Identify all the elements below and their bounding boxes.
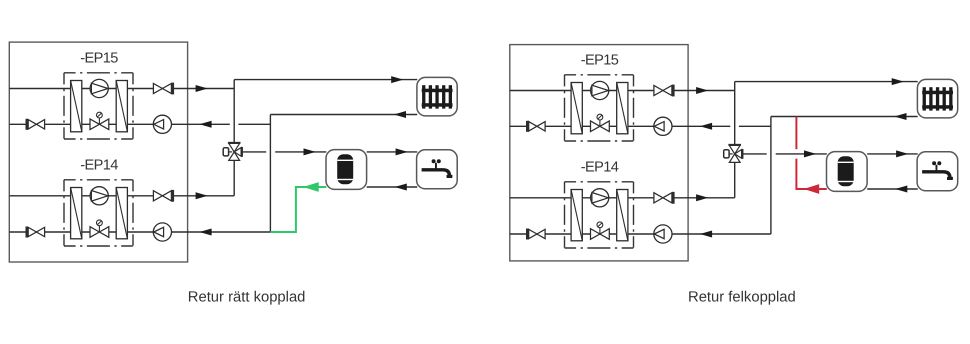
control valve with actuator inside EP15 unit (left) bbox=[90, 112, 109, 129]
arrow L4 return left (right) bbox=[700, 231, 712, 238]
arrow L4 return left (left) bbox=[199, 229, 211, 236]
tap icon box (left) bbox=[417, 150, 458, 189]
wire tap to tank return (right) bbox=[867, 188, 918, 190]
hot water tank icon box (left) bbox=[326, 150, 367, 190]
balancing valve on L1 (left) bbox=[153, 83, 171, 93]
pump inside EP15 unit (right) bbox=[591, 81, 609, 99]
shutoff valve on L4 near box edge (left) bbox=[28, 227, 44, 236]
control valve with actuator inside EP14 unit (left) bbox=[90, 220, 109, 237]
control valve with actuator inside EP15 unit (right) bbox=[591, 114, 610, 131]
arrow tap to tank left (right) bbox=[895, 186, 907, 193]
heat exchanger right plate EP15 (left) bbox=[116, 81, 127, 132]
arrow L2 return left (right) bbox=[700, 123, 712, 130]
svg-text:-EP14: -EP14 bbox=[581, 160, 619, 176]
wire L3 DHW supply from EP14 (left) bbox=[9, 195, 234, 197]
wire radiator supply (left) bbox=[234, 79, 417, 81]
arrow radiator return left (left) bbox=[394, 111, 406, 118]
arrow radiator supply right (right) bbox=[892, 78, 904, 85]
arrow L1 supply right (left) bbox=[196, 85, 208, 92]
arrow radiator supply right (left) bbox=[391, 76, 403, 83]
arrow radiator return left (right) bbox=[894, 113, 906, 120]
radiator icon box (left) bbox=[417, 77, 457, 116]
wire tank to tap supply (right) bbox=[867, 153, 918, 155]
svg-text:Retur rätt kopplad: Retur rätt kopplad bbox=[188, 289, 306, 305]
svg-text:Retur felkopplad: Retur felkopplad bbox=[688, 289, 796, 305]
heat exchanger left plate EP14 (right) bbox=[571, 190, 582, 241]
heat exchanger unit EP15 dashed enclosure (left) bbox=[64, 73, 133, 139]
wire radiator return (left) bbox=[270, 114, 417, 116]
tap icon box (right) bbox=[917, 152, 958, 191]
arrow tank charge right (right) bbox=[804, 150, 816, 157]
circulation pump on L2 (right) bbox=[654, 117, 672, 135]
hot water tank icon box (right) bbox=[827, 152, 868, 192]
wire vertical V1 valve riser (right) bbox=[734, 82, 736, 198]
heat exchanger unit EP14 dashed enclosure (left) bbox=[64, 180, 133, 246]
arrow L3 supply right (right) bbox=[696, 194, 708, 201]
heat exchanger left plate EP15 (right) bbox=[571, 83, 582, 134]
arrow L2 return left (left) bbox=[199, 121, 211, 128]
wire L1 heating supply from EP15 (right) bbox=[510, 90, 735, 92]
arrow tank to tap right (right) bbox=[896, 150, 908, 157]
wire L1 heating supply from EP15 (left) bbox=[9, 88, 234, 90]
circulation pump on L4 (right) bbox=[654, 225, 672, 243]
circulation pump on L2 (left) bbox=[153, 115, 171, 133]
wire tap to tank return (left) bbox=[367, 186, 418, 188]
wire vertical V2 radiator return drop (right) bbox=[770, 117, 772, 235]
three-way diverting valve (right) bbox=[724, 145, 743, 163]
red flow arrow out of tank bbox=[804, 184, 820, 194]
shutoff valve on L2 near box edge (left) bbox=[28, 120, 44, 129]
balancing valve on L1 (right) bbox=[654, 85, 672, 95]
wire L3 DHW supply from EP14 (right) bbox=[510, 197, 735, 199]
balancing valve on L3 (left) bbox=[153, 191, 171, 201]
three-way diverting valve (left) bbox=[223, 143, 242, 161]
arrow tank to tap right (left) bbox=[396, 148, 408, 155]
pump inside EP14 unit (right) bbox=[591, 189, 609, 207]
circulation pump on L4 (left) bbox=[153, 223, 171, 241]
svg-text:-EP14: -EP14 bbox=[80, 158, 118, 174]
heat exchanger right plate EP14 (right) bbox=[617, 190, 628, 241]
green correct return pipe (tank return to DHW return L4) bbox=[270, 187, 326, 232]
wire L2 heating return to EP15, gap at crossing (left) bbox=[9, 123, 230, 125]
wire radiator return (right) bbox=[771, 116, 918, 118]
balancing valve on L3 (right) bbox=[654, 193, 672, 203]
svg-text:-EP15: -EP15 bbox=[80, 51, 118, 67]
substation outer box (left) bbox=[9, 42, 187, 262]
heat exchanger unit EP14 dashed enclosure (right) bbox=[565, 182, 634, 248]
wire tank charge supply from valve, gap at V2 crossing (right) bbox=[743, 153, 767, 155]
svg-text:-EP15: -EP15 bbox=[581, 53, 619, 69]
radiator icon box (right) bbox=[917, 79, 957, 118]
heat exchanger unit EP15 dashed enclosure (right) bbox=[565, 75, 634, 141]
wire vertical V2 radiator return drop (left) bbox=[269, 115, 271, 233]
arrow tap to tank left (left) bbox=[395, 184, 407, 191]
heat exchanger right plate EP14 (left) bbox=[116, 188, 127, 239]
heat exchanger left plate EP14 (left) bbox=[71, 188, 82, 239]
shutoff valve on L4 near box edge (right) bbox=[529, 229, 545, 238]
arrow L1 supply right (right) bbox=[696, 87, 708, 94]
wire tank to tap supply (left) bbox=[367, 151, 418, 153]
wire radiator supply (right) bbox=[735, 81, 918, 83]
wire L2 heating return to EP15, gap at crossing (right) bbox=[510, 125, 731, 127]
wire tank charge supply from valve, gap at V2 crossing (left) bbox=[242, 151, 266, 153]
shutoff valve on L2 near box edge (right) bbox=[529, 122, 545, 131]
red wrong return pipe (tank return up to radiator return), gap at supply crossing bbox=[796, 159, 826, 189]
heat exchanger right plate EP15 (right) bbox=[617, 83, 628, 134]
pump inside EP15 unit (left) bbox=[90, 79, 108, 97]
heat exchanger left plate EP15 (left) bbox=[71, 81, 82, 132]
green flow arrow out of tank bbox=[303, 182, 319, 192]
arrow L3 supply right (left) bbox=[196, 192, 208, 199]
wire L4 DHW return to EP14 (left) bbox=[9, 231, 270, 233]
substation outer box (right) bbox=[510, 45, 688, 261]
pump inside EP14 unit (left) bbox=[90, 187, 108, 205]
control valve with actuator inside EP14 unit (right) bbox=[591, 222, 610, 239]
wire vertical V1 valve riser (left) bbox=[233, 80, 235, 196]
wire L4 DHW return to EP14 (right) bbox=[510, 233, 771, 235]
arrow tank charge right (left) bbox=[304, 148, 316, 155]
